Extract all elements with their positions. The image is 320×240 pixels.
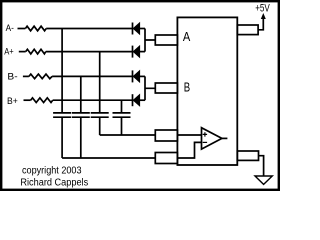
wire A diode pair junction	[145, 29, 155, 52]
pin box comparator + input	[155, 130, 177, 141]
svg-text:copyright 2003: copyright 2003	[22, 166, 82, 177]
wire C3 to upper bus	[99, 117, 101, 135]
resistor R1 (A- series)	[25, 26, 46, 31]
resistor R3 (B- series)	[29, 74, 52, 79]
pin box B input	[155, 83, 177, 93]
resistor R2 (A+ series)	[26, 49, 46, 54]
wire A+ drop to C3	[99, 52, 101, 113]
capacitor C4	[113, 113, 131, 117]
diode D2 (A+ clamp)	[133, 46, 146, 58]
wire A- drop to C1	[61, 29, 63, 113]
op-amp U1a comparator	[202, 128, 222, 149]
wire C2 to ground bus	[80, 117, 82, 158]
svg-text:Richard Cappels: Richard Cappels	[20, 178, 88, 189]
svg-text:B: B	[184, 81, 190, 95]
wire comparator output stub	[222, 137, 228, 139]
svg-text:A+: A+	[4, 46, 14, 57]
wire to ground symbol	[259, 156, 264, 176]
wire B- lead	[23, 75, 29, 77]
pin box A input	[155, 35, 177, 45]
wire lower ground bus	[62, 157, 155, 159]
capacitor C2	[72, 113, 90, 117]
resistor R4 (B+ series)	[31, 98, 53, 103]
wire C1 to ground bus	[61, 117, 63, 158]
border frame	[1, 1, 279, 190]
pin box ground	[237, 151, 258, 160]
IC U1 body	[177, 17, 237, 165]
wire comparator - input	[177, 142, 201, 158]
wire B+ drop to C4	[121, 100, 123, 113]
wire B- drop to C2	[80, 76, 82, 113]
svg-text:B+: B+	[7, 96, 18, 107]
wire A- lead	[18, 28, 26, 30]
+5V arrow head	[261, 13, 266, 19]
svg-text:+5V: +5V	[255, 2, 270, 14]
wire B- row	[52, 75, 132, 77]
svg-text:A-: A-	[6, 23, 14, 34]
diode D3 (B- clamp)	[133, 70, 146, 82]
wire to +5V arrow	[258, 19, 263, 30]
capacitor C1	[53, 113, 71, 117]
diode D1 (A- clamp)	[133, 23, 146, 35]
svg-text:A: A	[183, 30, 191, 44]
capacitor C3	[91, 113, 109, 117]
svg-text:B-: B-	[7, 72, 17, 83]
ground symbol	[255, 176, 272, 184]
pin box comparator - input	[155, 153, 177, 164]
wire A- row	[46, 28, 132, 30]
wire A+ lead	[19, 51, 26, 53]
wire comparator + input	[177, 134, 201, 136]
pin box +5V supply	[237, 25, 258, 35]
wire B+ lead	[24, 99, 31, 101]
wire B+ row	[53, 99, 133, 101]
wire upper bus	[100, 134, 156, 136]
diode D4 (B+ clamp)	[133, 94, 146, 106]
wire B diode pair junction	[145, 76, 155, 100]
wire C4 to upper bus	[121, 117, 123, 135]
wire A+ row	[46, 51, 133, 53]
